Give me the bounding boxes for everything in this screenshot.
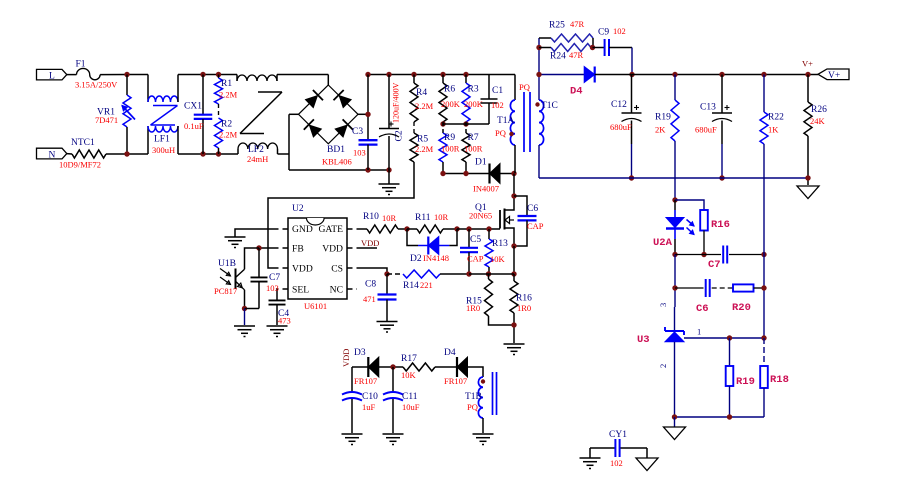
node R1 top xyxy=(216,72,221,77)
wire xyxy=(469,273,514,275)
resistor R17 xyxy=(401,354,457,380)
wire divider mid xyxy=(443,123,489,125)
svg-text:R22: R22 xyxy=(768,113,784,123)
svg-text:200K: 200K xyxy=(464,99,484,109)
diode D2 bypass xyxy=(407,229,457,264)
svg-text:V+: V+ xyxy=(802,59,813,69)
svg-text:C7: C7 xyxy=(269,273,280,283)
wire xyxy=(413,122,415,133)
node C11 top xyxy=(390,364,395,369)
node R24-C9 xyxy=(590,45,595,50)
svg-text:C2: C2 xyxy=(395,130,405,141)
node ref-R19s xyxy=(727,335,732,340)
wire FB pin xyxy=(259,247,288,249)
capacitor C6 (primary) xyxy=(514,196,544,246)
capacitor CX1 xyxy=(184,75,212,155)
svg-text:24K: 24K xyxy=(810,116,826,126)
svg-text:2.2M: 2.2M xyxy=(415,144,434,154)
node F1-VR1 xyxy=(124,72,129,77)
svg-text:C13: C13 xyxy=(700,103,716,113)
svg-text:R13: R13 xyxy=(492,239,508,249)
svg-text:C3: C3 xyxy=(352,127,363,137)
connector V+ output xyxy=(818,69,849,81)
wire bridge right xyxy=(358,113,368,115)
svg-text:CS: CS xyxy=(331,264,343,275)
net label VDD xyxy=(361,238,379,248)
wire xyxy=(106,153,148,155)
svg-text:3: 3 xyxy=(658,303,668,307)
capacitor C7 (secondary) xyxy=(708,246,764,272)
svg-text:BD1: BD1 xyxy=(327,145,345,155)
node R22 top xyxy=(761,72,766,77)
wire xyxy=(513,246,515,274)
svg-text:VDD: VDD xyxy=(292,264,313,275)
ground (power) CY1 right xyxy=(636,448,658,471)
svg-text:200K: 200K xyxy=(441,99,461,109)
node R16 bottom xyxy=(701,252,706,257)
svg-text:2.2M: 2.2M xyxy=(415,101,434,111)
svg-text:N: N xyxy=(49,150,56,160)
svg-text:PQ: PQ xyxy=(467,402,478,412)
capacitor C12 xyxy=(610,75,642,179)
svg-text:102: 102 xyxy=(613,26,626,36)
svg-text:221: 221 xyxy=(420,280,433,290)
svg-text:10K: 10K xyxy=(490,254,506,264)
svg-text:R9: R9 xyxy=(444,133,455,143)
svg-text:300uH: 300uH xyxy=(152,145,175,155)
resistor R6 xyxy=(439,75,461,123)
node CX1 bottom xyxy=(200,151,205,156)
net label VDD aux xyxy=(341,349,351,367)
resistor R9 xyxy=(439,122,460,162)
resistor R22 xyxy=(760,75,784,179)
capacitor C8 xyxy=(363,274,397,321)
svg-text:R6: R6 xyxy=(444,85,455,95)
svg-text:V+: V+ xyxy=(828,71,840,81)
svg-text:FB: FB xyxy=(292,244,304,255)
svg-text:C7: C7 xyxy=(708,259,721,271)
node R4 top xyxy=(411,72,416,77)
wire xyxy=(278,153,290,155)
svg-text:U3: U3 xyxy=(637,334,650,346)
svg-text:100R: 100R xyxy=(464,144,483,154)
wire xyxy=(457,228,500,230)
diode D3 xyxy=(352,348,379,386)
node C7-R22 line xyxy=(761,252,766,257)
transformer T1C secondary winding xyxy=(539,75,558,179)
resistor R16 (primary sense) xyxy=(510,274,532,343)
svg-text:C1: C1 xyxy=(492,86,503,96)
svg-text:CAP: CAP xyxy=(467,254,484,264)
node C2 bottom xyxy=(386,167,391,172)
svg-text:SEL: SEL xyxy=(292,285,309,296)
node R7 bottom xyxy=(463,171,468,176)
svg-text:10K: 10K xyxy=(401,370,417,380)
node BD1-C3 xyxy=(365,112,370,117)
svg-text:CX1: CX1 xyxy=(184,102,202,112)
svg-text:R26: R26 xyxy=(811,105,827,115)
svg-text:FR107: FR107 xyxy=(354,376,377,386)
ground (earth) CY1 left xyxy=(580,448,601,469)
svg-text:C6: C6 xyxy=(527,204,538,214)
svg-text:R14: R14 xyxy=(403,281,419,291)
node T1C phase dot xyxy=(535,102,539,106)
resistor R19 bleeder xyxy=(655,75,679,179)
svg-text:LF1: LF1 xyxy=(154,135,170,145)
svg-text:D4: D4 xyxy=(570,86,583,98)
wire DC plus rail xyxy=(368,74,515,76)
node T1A phase dot xyxy=(509,132,513,136)
node drain-C6 xyxy=(511,193,516,198)
wire GATE pin xyxy=(347,228,367,230)
svg-text:0.1uF: 0.1uF xyxy=(184,121,204,131)
wire xyxy=(675,254,721,256)
svg-text:R4: R4 xyxy=(416,88,427,98)
capacitor C13 xyxy=(695,75,732,179)
svg-text:VDD: VDD xyxy=(341,349,351,367)
capacitor C9 xyxy=(593,26,633,56)
node R3 top xyxy=(463,72,468,77)
node R13 top xyxy=(486,226,491,231)
wire output return rail xyxy=(539,177,808,179)
diode D4 (aux) xyxy=(444,348,483,386)
ground (power) feedback xyxy=(664,417,686,440)
resistor R14 xyxy=(403,270,469,291)
wire bridge left xyxy=(289,114,299,170)
svg-text:C10: C10 xyxy=(362,392,378,402)
node CX1 top xyxy=(200,72,205,77)
capacitor C6 (secondary) xyxy=(696,279,710,315)
fuse F1 xyxy=(75,60,118,90)
svg-text:7D471: 7D471 xyxy=(95,115,118,125)
node C5 top xyxy=(466,226,471,231)
node emitter-C7 xyxy=(242,306,247,311)
svg-text:2: 2 xyxy=(658,364,668,368)
wire xyxy=(244,309,246,326)
svg-text:F1: F1 xyxy=(76,60,86,70)
wire VDD right pin xyxy=(347,247,377,249)
node D4 row xyxy=(536,72,541,77)
transformer core xyxy=(524,92,530,152)
svg-text:U6101: U6101 xyxy=(304,301,327,311)
capacitor C5 xyxy=(460,229,484,274)
IC U2 body xyxy=(288,204,347,311)
node ref-R18 xyxy=(761,335,766,340)
resistor R4 xyxy=(410,75,434,123)
svg-text:10R: 10R xyxy=(434,212,449,222)
svg-text:1K: 1K xyxy=(768,125,779,135)
node gnd branch xyxy=(672,414,677,419)
svg-text:C8: C8 xyxy=(365,280,376,290)
wire CS row xyxy=(387,273,403,275)
node NTC1-VR1 xyxy=(124,151,129,156)
wire xyxy=(67,153,72,155)
svg-text:102: 102 xyxy=(491,100,504,110)
ground (earth) sense xyxy=(504,344,525,355)
svg-text:10R: 10R xyxy=(382,213,397,223)
diode D1 xyxy=(473,158,514,194)
node C9-rail xyxy=(629,72,634,77)
node LED cathode xyxy=(672,252,677,257)
common-mode choke LF1 xyxy=(148,75,178,156)
wire output rail xyxy=(632,74,818,76)
svg-text:D2: D2 xyxy=(410,254,422,264)
wire xyxy=(674,255,676,308)
svg-text:R1: R1 xyxy=(221,79,232,89)
svg-text:103: 103 xyxy=(266,283,279,293)
svg-text:NC: NC xyxy=(330,285,343,296)
optocoupler LED U2A xyxy=(653,200,694,255)
svg-text:680uF: 680uF xyxy=(695,125,717,135)
svg-text:R10: R10 xyxy=(363,212,379,222)
svg-text:R16: R16 xyxy=(711,219,730,231)
svg-text:T1A: T1A xyxy=(497,116,515,126)
node C13 bottom xyxy=(719,175,724,180)
wire xyxy=(178,153,238,155)
resistor R13 xyxy=(485,229,508,274)
node R9 bottom xyxy=(440,171,445,176)
varistor VR1 xyxy=(95,75,135,155)
node opto branch xyxy=(672,197,677,202)
node R26 top xyxy=(805,72,810,77)
wire U3 ref xyxy=(684,337,764,339)
svg-text:473: 473 xyxy=(278,316,291,326)
node snubber left top xyxy=(536,45,541,50)
pin 3 label xyxy=(658,303,668,307)
pin 1 label xyxy=(697,327,701,337)
svg-text:GATE: GATE xyxy=(318,224,343,235)
resistor R11 xyxy=(407,212,457,233)
node R20-R22 line xyxy=(761,285,766,290)
transformer T1B aux winding xyxy=(465,372,497,433)
ground (earth) U1B xyxy=(234,326,255,337)
svg-text:471: 471 xyxy=(363,294,376,304)
wire xyxy=(245,308,260,310)
svg-text:VDD: VDD xyxy=(322,244,343,255)
resistor R20 xyxy=(732,284,764,314)
wire pin stub gaps xyxy=(279,227,357,290)
svg-text:C12: C12 xyxy=(611,100,627,110)
svg-text:C9: C9 xyxy=(598,28,609,38)
wire xyxy=(218,104,220,118)
svg-text:VDD: VDD xyxy=(361,238,379,248)
node return-R26 xyxy=(805,175,810,180)
svg-text:R7: R7 xyxy=(468,133,479,143)
diode D4 output rectifier xyxy=(539,67,632,98)
thermistor NTC1 xyxy=(59,138,106,170)
svg-text:680uF: 680uF xyxy=(610,122,632,132)
svg-text:U2A: U2A xyxy=(653,237,673,249)
wire xyxy=(67,74,77,76)
svg-text:C11: C11 xyxy=(402,392,418,402)
node FB xyxy=(256,245,261,250)
node R11 right xyxy=(454,226,459,231)
capacitor CY1 xyxy=(590,430,647,468)
node R19s bottom xyxy=(727,414,732,419)
svg-text:R19: R19 xyxy=(655,113,671,123)
svg-text:L: L xyxy=(49,72,55,82)
transformer T1A primary winding xyxy=(495,75,530,174)
ground (earth) C8 xyxy=(377,322,398,333)
svg-text:CAP: CAP xyxy=(527,221,544,231)
resistor R18 xyxy=(760,338,789,417)
wire xyxy=(675,287,704,289)
capacitor C4 xyxy=(269,300,291,325)
svg-text:2.2M: 2.2M xyxy=(219,90,238,100)
svg-text:1R0: 1R0 xyxy=(466,303,480,313)
resistor R10 xyxy=(363,212,407,233)
connector L (AC live input) xyxy=(37,69,67,81)
svg-text:R5: R5 xyxy=(417,135,428,145)
node C5 bottom xyxy=(466,271,471,276)
differential choke LF2 xyxy=(237,75,282,165)
wire DC minus rail xyxy=(289,169,389,171)
wire xyxy=(631,48,633,75)
svg-text:GND: GND xyxy=(292,224,313,235)
shunt regulator U3 (TL431) xyxy=(637,307,684,417)
svg-text:10uF: 10uF xyxy=(402,402,420,412)
node source-C6 xyxy=(511,243,516,248)
svg-text:R18: R18 xyxy=(770,374,789,386)
svg-text:C6: C6 xyxy=(696,303,709,315)
svg-text:PQ: PQ xyxy=(495,128,506,138)
node C6 branch xyxy=(672,285,677,290)
wire R22 feedback line xyxy=(763,178,765,338)
resistor R5 xyxy=(410,133,434,162)
wire GND pin xyxy=(235,229,288,237)
svg-text:CY1: CY1 xyxy=(609,430,627,440)
wire xyxy=(100,74,148,76)
capacitor C3 xyxy=(352,75,378,171)
svg-text:U1B: U1B xyxy=(218,259,236,269)
resistor R25 xyxy=(539,19,593,48)
optocoupler U1B phototransistor xyxy=(214,248,259,309)
svg-text:D1: D1 xyxy=(475,158,487,168)
node sense bottom xyxy=(511,322,516,327)
resistor R26 xyxy=(804,75,827,186)
ground (earth) U2 GND xyxy=(225,237,246,248)
ground (earth) C4 xyxy=(267,326,288,337)
resistor R3 xyxy=(462,75,484,123)
svg-text:T1C: T1C xyxy=(541,101,558,111)
svg-text:NTC1: NTC1 xyxy=(71,138,95,148)
ground (power) R26 xyxy=(797,186,819,199)
wire bridge top stub xyxy=(327,75,329,86)
svg-text:2.2M: 2.2M xyxy=(219,130,238,140)
svg-text:47R: 47R xyxy=(570,19,585,29)
node C3 top xyxy=(365,72,370,77)
svg-text:20N65: 20N65 xyxy=(469,211,492,221)
svg-text:R19: R19 xyxy=(736,376,755,388)
svg-text:R16: R16 xyxy=(516,294,532,304)
svg-text:R20: R20 xyxy=(732,302,751,314)
svg-text:24mH: 24mH xyxy=(247,154,268,164)
svg-text:R25: R25 xyxy=(549,21,565,31)
svg-text:1uF: 1uF xyxy=(362,402,376,412)
resistor R24 xyxy=(539,44,593,62)
wire R5 to VDD xyxy=(268,162,414,268)
capacitor C2 bulk electrolytic xyxy=(379,75,405,171)
node C3 bottom xyxy=(365,167,370,172)
node R2 bottom xyxy=(216,151,221,156)
svg-text:100R: 100R xyxy=(441,144,460,154)
resistor R15 xyxy=(466,274,514,325)
node D1-drain xyxy=(511,171,516,176)
svg-text:103: 103 xyxy=(353,148,366,158)
svg-text:PQ: PQ xyxy=(519,82,530,92)
resistor R7 xyxy=(462,122,483,162)
wire divider return xyxy=(675,416,765,418)
node R10-R11 xyxy=(404,226,409,231)
node R13 bottom xyxy=(486,271,491,276)
svg-text:IN4007: IN4007 xyxy=(473,184,499,194)
wire SEL pin xyxy=(277,289,288,300)
resistor R19 (secondary divider) xyxy=(726,338,755,417)
ground (earth) C10 xyxy=(342,434,363,445)
svg-text:C5: C5 xyxy=(470,235,481,245)
resistor R2 xyxy=(215,118,238,154)
node C12 bottom xyxy=(629,175,634,180)
capacitor C7 (primary) xyxy=(251,248,281,309)
resistor R16 (secondary) xyxy=(700,210,730,255)
net label V+ xyxy=(802,59,813,69)
node C2 top xyxy=(386,72,391,77)
svg-text:1R0: 1R0 xyxy=(517,303,531,313)
node T1B phase dot xyxy=(481,379,485,383)
wire xyxy=(277,74,328,76)
ground (earth) T1B xyxy=(473,434,494,445)
svg-text:3.15A/250V: 3.15A/250V xyxy=(75,80,118,90)
node R19 top xyxy=(672,72,677,77)
svg-text:47R: 47R xyxy=(569,50,584,60)
connector N (AC neutral input) xyxy=(37,148,67,160)
svg-text:R3: R3 xyxy=(468,85,479,95)
wire xyxy=(712,287,733,289)
pin 2 label xyxy=(658,364,668,368)
resistor R1 xyxy=(215,75,238,105)
node R3-R7 xyxy=(463,121,468,126)
wire xyxy=(379,366,403,368)
svg-text:R17: R17 xyxy=(401,354,417,364)
svg-text:D4: D4 xyxy=(444,348,456,358)
svg-text:102: 102 xyxy=(610,458,623,468)
svg-text:T1B: T1B xyxy=(465,392,482,402)
svg-text:1: 1 xyxy=(697,327,701,337)
svg-text:2K: 2K xyxy=(655,125,666,135)
svg-text:10D9/MF72: 10D9/MF72 xyxy=(59,160,101,170)
svg-text:KBL406: KBL406 xyxy=(322,157,352,167)
transistor Q1 MOSFET xyxy=(469,174,514,247)
node R6-R9 xyxy=(440,121,445,126)
bridge rectifier BD1 xyxy=(299,85,359,167)
svg-text:PC817: PC817 xyxy=(214,286,237,296)
wire snubber left xyxy=(538,38,540,75)
wire xyxy=(178,74,237,76)
svg-text:D3: D3 xyxy=(354,348,366,358)
label PQ top xyxy=(0,0,1,1)
wire R9-R7 bottom xyxy=(443,162,490,174)
svg-text:FR107: FR107 xyxy=(444,376,467,386)
node CS xyxy=(384,271,389,276)
ground (earth) C2 xyxy=(379,170,400,195)
capacitor C10 xyxy=(342,367,378,433)
node C13 top xyxy=(719,72,724,77)
wire CS pin xyxy=(347,268,387,274)
svg-text:U2: U2 xyxy=(292,204,304,214)
capacitor C1 xyxy=(481,75,504,125)
svg-text:120uF/400V: 120uF/400V xyxy=(392,82,401,123)
svg-text:R2: R2 xyxy=(221,120,232,130)
